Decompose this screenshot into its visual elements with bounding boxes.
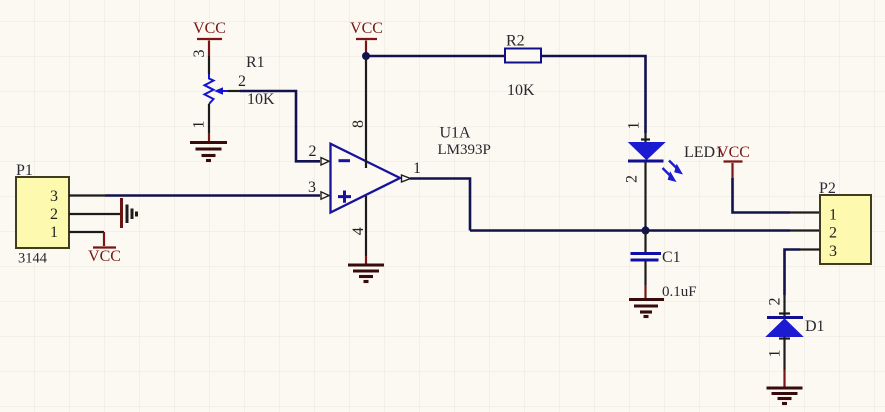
pin 2 entry bbox=[321, 158, 329, 165]
ground P1 pin2 (sideways) bbox=[122, 198, 137, 228]
svg-text:U1A: U1A bbox=[440, 125, 472, 142]
pin 3 entry bbox=[321, 192, 329, 199]
svg-text:2: 2 bbox=[624, 175, 641, 183]
wire P1 pin3 to U1A pin3 bbox=[69, 194, 320, 196]
svg-text:VCC: VCC bbox=[88, 248, 121, 265]
wire P1 pin2 stub bbox=[69, 213, 120, 215]
pin 4 bbox=[365, 196, 367, 256]
connector P1 bbox=[16, 162, 69, 267]
wire U1A output to bottom bus bbox=[410, 179, 470, 231]
svg-text:2: 2 bbox=[829, 225, 837, 242]
svg-text:D1: D1 bbox=[805, 318, 825, 335]
svg-text:3: 3 bbox=[50, 188, 58, 205]
power VCC (P1 pin1) bbox=[88, 248, 121, 266]
resistor R2 bbox=[505, 33, 541, 100]
emission arrows bbox=[663, 161, 679, 178]
svg-text:10K: 10K bbox=[507, 82, 535, 99]
svg-text:3: 3 bbox=[829, 243, 837, 260]
power VCC (P2 pin1) bbox=[717, 144, 750, 178]
svg-text:VCC: VCC bbox=[193, 20, 226, 37]
svg-text:LM393P: LM393P bbox=[438, 142, 491, 158]
svg-text:1: 1 bbox=[626, 122, 643, 130]
ground U1A pin4 bbox=[348, 265, 384, 282]
svg-text:4: 4 bbox=[350, 227, 367, 235]
pin 8 bbox=[365, 57, 367, 168]
svg-text:1: 1 bbox=[829, 207, 837, 224]
LED LED1 bbox=[624, 122, 723, 197]
diode D1 bbox=[767, 295, 825, 387]
svg-text:R1: R1 bbox=[246, 54, 265, 71]
svg-text:1: 1 bbox=[191, 121, 208, 129]
wire P1 pin1 to VCC bbox=[69, 232, 104, 246]
svg-text:R2: R2 bbox=[506, 33, 525, 50]
wire P2 pin3 to D1 bbox=[785, 250, 821, 296]
svg-text:2: 2 bbox=[50, 206, 58, 223]
wire VCC node to R2 bbox=[366, 53, 505, 56]
svg-text:VCC: VCC bbox=[717, 144, 750, 161]
wire output bus to P2 pin2 bbox=[470, 229, 820, 232]
wire LED to bus bbox=[644, 196, 646, 226]
svg-text:C1: C1 bbox=[662, 249, 681, 266]
pin 1 output bbox=[402, 175, 411, 182]
power VCC (R1 top) bbox=[193, 20, 226, 56]
op-amp U1A bbox=[308, 57, 491, 264]
junction output node bbox=[642, 227, 650, 235]
svg-text:3144: 3144 bbox=[18, 251, 48, 267]
wire R2 to LED bbox=[541, 56, 646, 133]
ground R1 bbox=[190, 143, 227, 161]
svg-text:1: 1 bbox=[50, 224, 58, 241]
svg-text:VCC: VCC bbox=[350, 20, 383, 37]
svg-text:8: 8 bbox=[350, 120, 367, 128]
wire R1 wiper to U1A pin2 bbox=[240, 91, 320, 161]
svg-text:2: 2 bbox=[238, 73, 246, 90]
svg-text:3: 3 bbox=[191, 50, 208, 58]
svg-text:3: 3 bbox=[308, 179, 316, 196]
svg-text:1: 1 bbox=[767, 350, 784, 358]
svg-text:P1: P1 bbox=[16, 162, 33, 179]
svg-text:2: 2 bbox=[309, 143, 317, 160]
svg-text:10K: 10K bbox=[247, 91, 275, 108]
capacitor C1 bbox=[631, 231, 697, 301]
connector P2 bbox=[819, 180, 871, 264]
ground C1 bbox=[629, 300, 664, 317]
svg-text:1: 1 bbox=[413, 160, 421, 177]
svg-text:P2: P2 bbox=[819, 180, 836, 197]
wire VCC to P2 pin1 bbox=[733, 178, 821, 213]
svg-text:2: 2 bbox=[767, 298, 784, 306]
potentiometer R1 bbox=[191, 50, 275, 142]
svg-text:0.1uF: 0.1uF bbox=[662, 284, 697, 300]
junction VCC node bbox=[362, 52, 370, 60]
power VCC (U1A pin8 node) bbox=[350, 20, 383, 53]
ground D1 bbox=[767, 388, 803, 404]
